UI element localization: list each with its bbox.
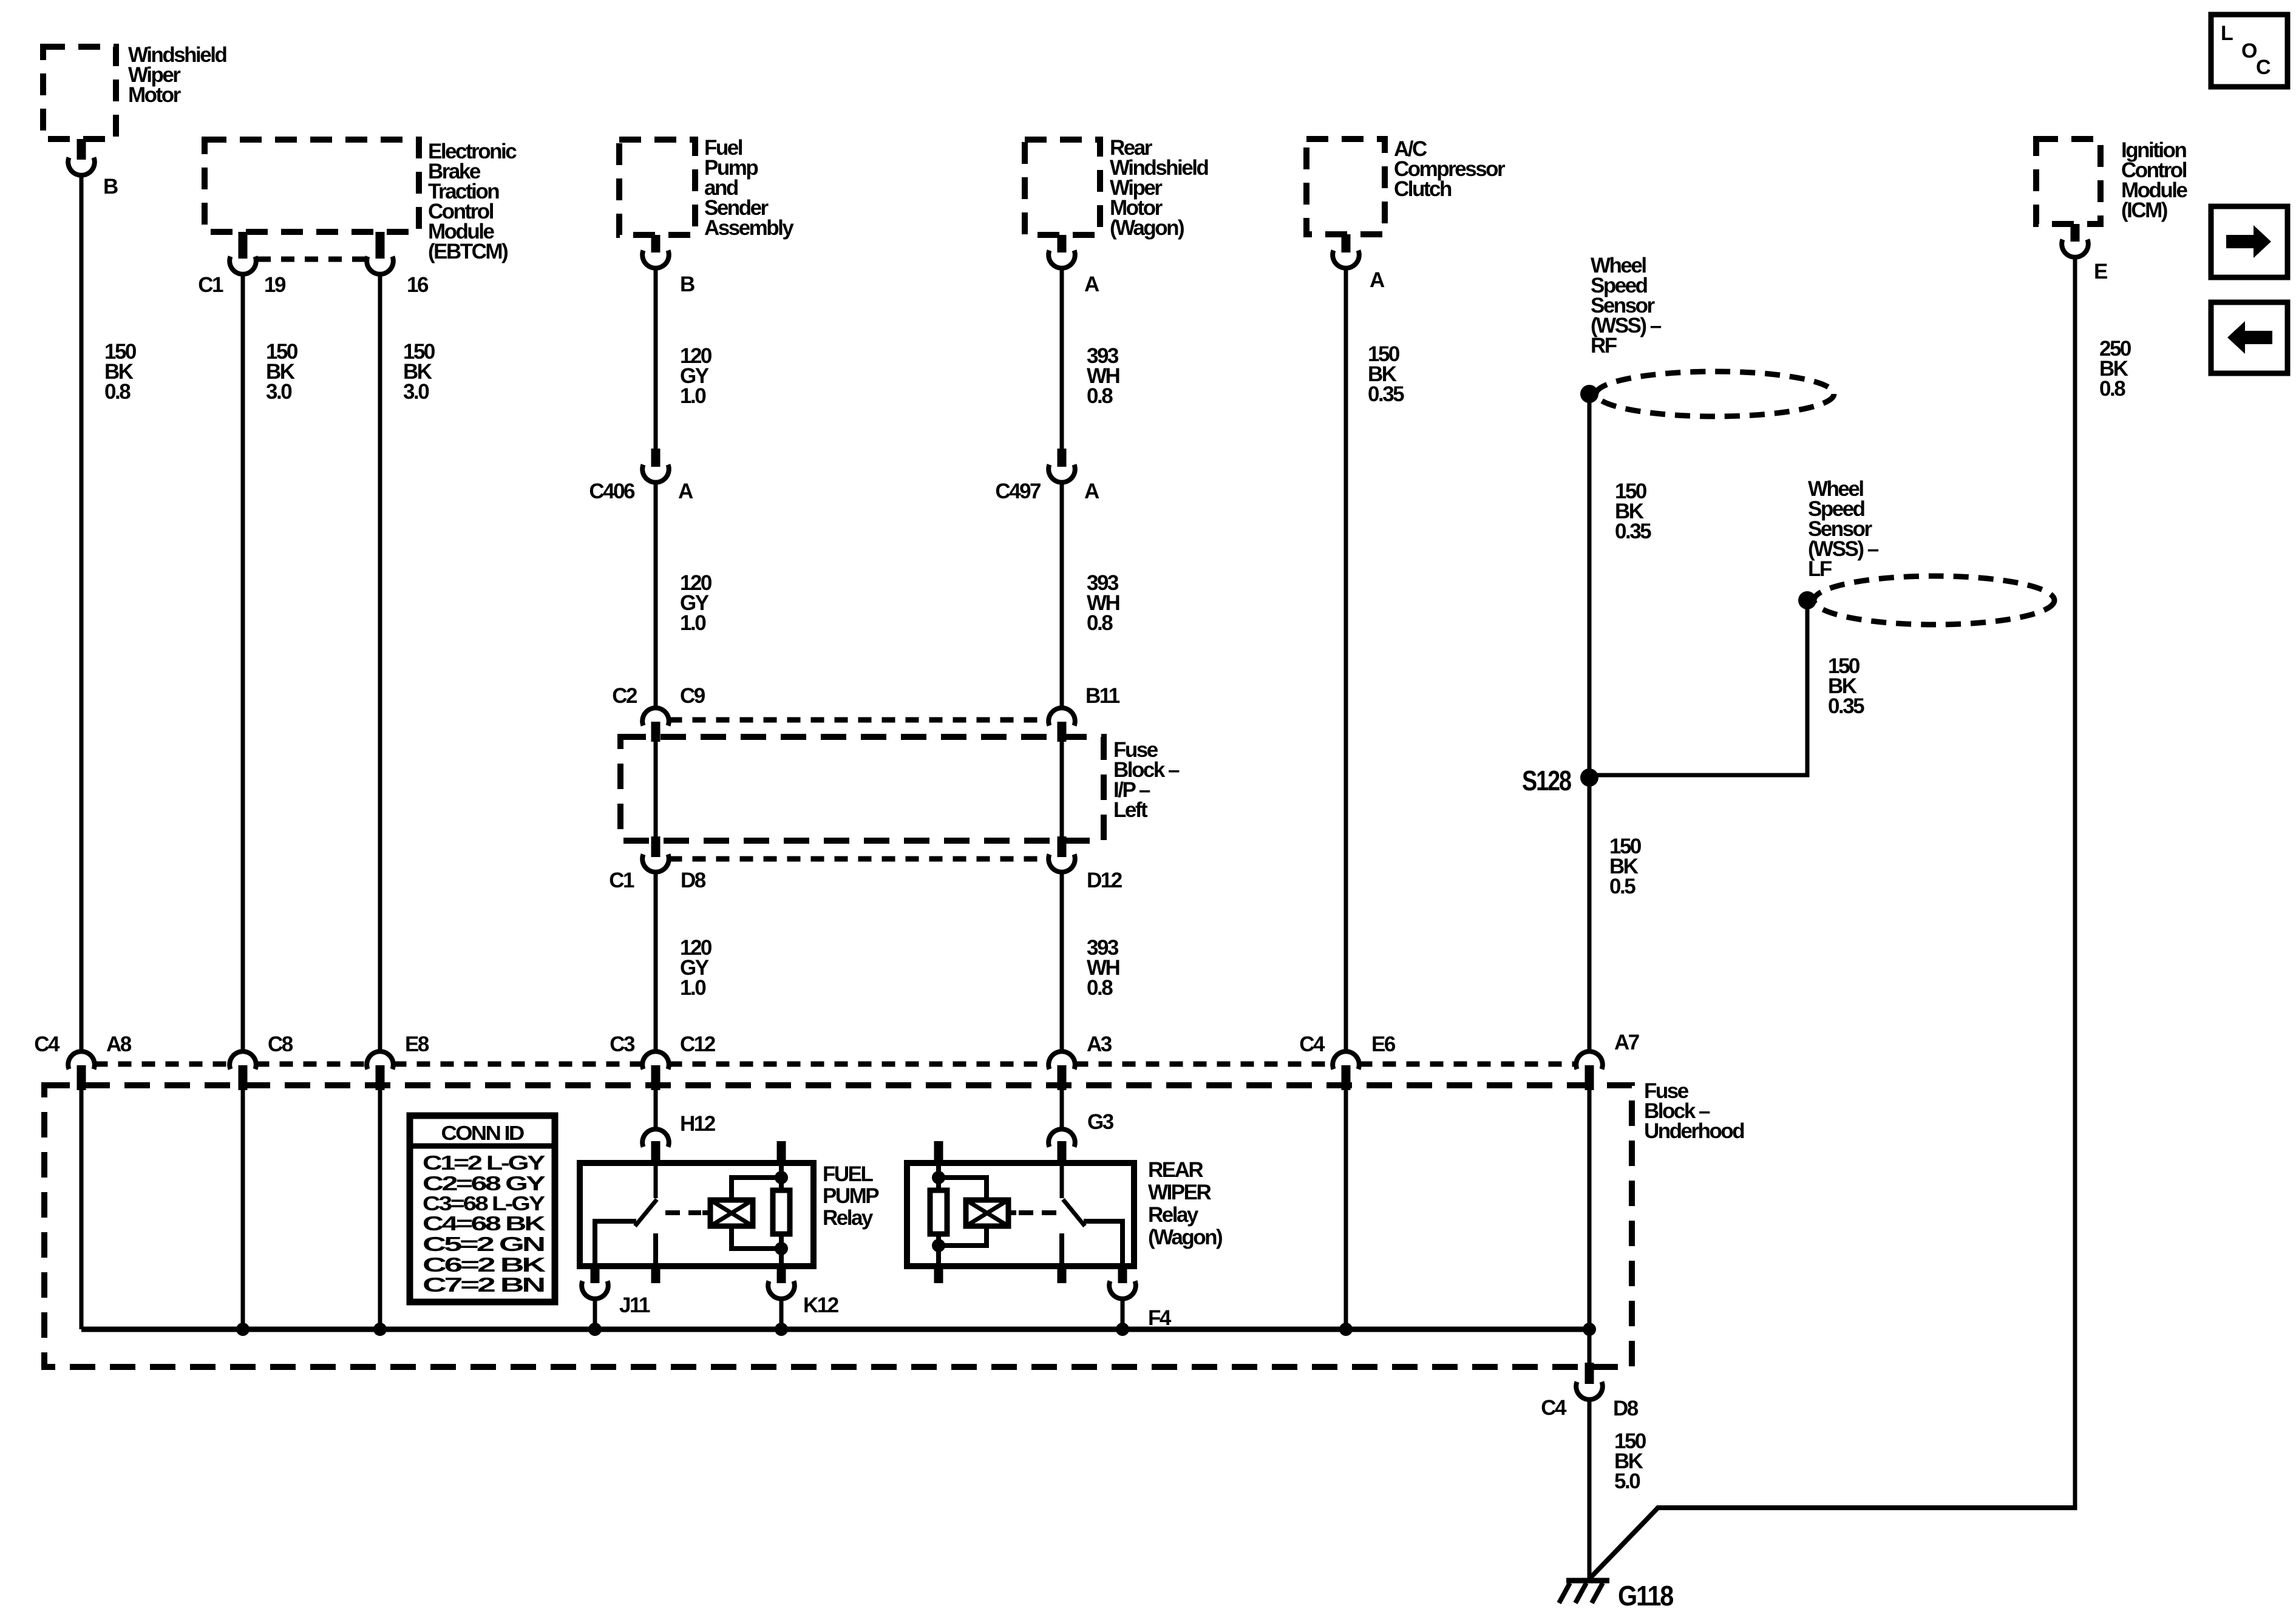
rear wiper relay switch common from G3 <box>1060 1164 1064 1198</box>
svg-text:1.0: 1.0 <box>680 976 706 1000</box>
svg-text:C9: C9 <box>680 684 705 708</box>
wire J11 to ground bus <box>593 1299 597 1329</box>
fuel pump relay switch output wire to J11 <box>595 1221 636 1266</box>
fuel pump relay actuation dashed link <box>665 1210 701 1215</box>
svg-text:FUEL: FUEL <box>823 1162 874 1186</box>
svg-text:E8: E8 <box>405 1032 429 1056</box>
fuse block IP connector dotted face top <box>669 717 1049 723</box>
svg-text:C5=2 GN: C5=2 GN <box>423 1233 544 1255</box>
svg-text:0.35: 0.35 <box>1828 694 1864 718</box>
svg-text:Relay: Relay <box>823 1206 874 1230</box>
svg-text:Left: Left <box>1113 798 1148 822</box>
svg-text:A8: A8 <box>106 1032 132 1056</box>
svg-text:Relay: Relay <box>1148 1203 1199 1227</box>
svg-text:C1: C1 <box>198 273 223 297</box>
connector pin A of AC clutch <box>1342 234 1351 253</box>
svg-text:0.8: 0.8 <box>2099 377 2125 401</box>
underhood entry pin A3 connector <box>1048 1051 1075 1069</box>
underhood entry pin C12 connector <box>642 1051 669 1069</box>
underhood entry pin C8 connector <box>229 1051 256 1069</box>
connector pin A of rear wiper motor <box>1058 235 1067 253</box>
wheel speed sensor RF splice dot <box>1580 385 1598 403</box>
svg-text:G118: G118 <box>1618 1580 1674 1612</box>
wire 150 BK 3.0 from EBTCM pin 16 <box>378 275 382 1051</box>
svg-text:B: B <box>103 175 118 198</box>
in-line connector C406 pin A <box>651 449 661 467</box>
wire 150 BK 0.35 from AC clutch <box>1344 268 1348 1051</box>
junction coil to resistor top left <box>932 1171 945 1184</box>
fuse block IP exit pin D8 connector <box>651 836 661 857</box>
LOC legend box <box>2211 15 2288 87</box>
EBTCM pin 16 connector <box>376 232 385 259</box>
svg-text:C497: C497 <box>995 480 1041 503</box>
relay terminal H12 connector <box>642 1129 669 1147</box>
fuse block IP left dashed box <box>620 737 1104 841</box>
rear windshield wiper motor <box>1025 140 1100 235</box>
svg-text:L: L <box>2221 22 2233 45</box>
relay terminal K12 connector <box>777 1266 786 1283</box>
wire 150 BK 5.0 to ground G118 <box>1588 1400 1592 1581</box>
fuel pump relay box <box>580 1163 813 1266</box>
wire K12 to ground bus <box>779 1299 784 1329</box>
connector pin B of wiper motor <box>77 139 86 160</box>
wire 393 WH 0.8 from IP block to underhood block <box>1060 872 1064 1051</box>
wire 120 GY 1.0 from IP block to underhood block <box>654 872 658 1051</box>
svg-text:A7: A7 <box>1614 1031 1639 1054</box>
underhood exit pin D8 connector <box>1585 1363 1594 1384</box>
junction E6 on ground bus <box>1339 1323 1353 1336</box>
ground symbol G118 <box>1566 1578 1609 1584</box>
rear wiper relay switch arm <box>1063 1199 1085 1226</box>
relay terminal G3 connector <box>1048 1129 1075 1147</box>
fuse block underhood connector dotted face <box>95 1062 230 1067</box>
svg-text:0.8: 0.8 <box>1087 611 1113 635</box>
wire 120 GY 1.0 from C406 to fuse block IP <box>654 483 658 708</box>
svg-text:C2: C2 <box>612 684 637 708</box>
svg-text:E: E <box>2094 260 2107 283</box>
junction coil to resistor bottom <box>775 1242 788 1255</box>
svg-text:C: C <box>2256 56 2271 79</box>
svg-text:(Wagon): (Wagon) <box>1148 1225 1222 1249</box>
svg-text:C6=2 BK: C6=2 BK <box>423 1253 546 1276</box>
relay terminal F4 connector <box>1118 1266 1127 1283</box>
wire through fuse block IP fuel pump circuit <box>654 742 658 836</box>
svg-text:16: 16 <box>407 273 429 297</box>
svg-text:Assembly: Assembly <box>704 216 794 240</box>
wire inside fuse block from E8 to bus <box>378 1090 382 1329</box>
wire 250 BK 0.8 from ICM to ground <box>2073 257 2077 1510</box>
junction coil to resistor bottom left <box>932 1239 945 1252</box>
svg-text:C8: C8 <box>268 1032 293 1056</box>
connector pin B of fuel pump <box>651 235 661 253</box>
junction E8 on ground bus <box>373 1323 387 1336</box>
fuel pump and sender assembly <box>619 140 695 235</box>
CONN ID table <box>410 1116 555 1302</box>
EBTCM pin 19 connector <box>239 232 248 259</box>
svg-text:1.0: 1.0 <box>680 384 706 408</box>
wire 150 BK 3.0 from EBTCM pin 19 <box>241 275 245 1051</box>
rear wiper relay coil top wire <box>939 1178 987 1200</box>
AC compressor clutch <box>1306 139 1385 234</box>
arrow legend box right <box>2211 206 2288 277</box>
fuel pump relay switch common from H12 <box>654 1163 658 1198</box>
svg-text:19: 19 <box>264 273 286 297</box>
svg-text:C3: C3 <box>610 1032 635 1056</box>
rear wiper relay resistor <box>930 1190 947 1234</box>
rear wiper relay terminal stub top left <box>934 1141 943 1163</box>
fuel pump relay switch arm <box>635 1199 657 1226</box>
wire 150 BK 0.35 from WSS LF to S128 <box>1595 608 1807 775</box>
rear wiper relay lower contact stub <box>1059 1233 1064 1263</box>
connector pin E of ICM <box>2071 224 2080 242</box>
svg-text:S128: S128 <box>1522 765 1572 796</box>
svg-text:LF: LF <box>1808 557 1832 581</box>
underhood entry pin E6 connector <box>1333 1051 1359 1069</box>
svg-text:H12: H12 <box>680 1112 716 1136</box>
svg-text:C1: C1 <box>609 869 634 892</box>
svg-text:0.35: 0.35 <box>1368 382 1404 406</box>
fuel pump relay terminal stub top right <box>777 1141 786 1163</box>
junction coil to resistor top <box>775 1171 788 1184</box>
rear wiper relay bottom left stub <box>934 1266 943 1283</box>
svg-text:C2=68 GY: C2=68 GY <box>423 1172 546 1195</box>
svg-text:RF: RF <box>1591 334 1617 358</box>
svg-text:A: A <box>1370 268 1385 292</box>
svg-text:3.0: 3.0 <box>266 380 292 404</box>
wire inside fuse block from C8 to bus <box>241 1090 245 1329</box>
wire 150 BK 0.8 from wiper motor to fuse block <box>80 175 84 1051</box>
svg-text:Underhood: Underhood <box>1644 1119 1744 1143</box>
fuel pump relay coil bottom wire <box>732 1226 781 1249</box>
svg-text:A3: A3 <box>1087 1032 1112 1056</box>
fuse block IP exit pin D12 connector <box>1058 836 1067 857</box>
rear wiper relay switch output wire to F4 <box>1084 1221 1123 1266</box>
svg-text:C4=68 BK: C4=68 BK <box>423 1212 546 1235</box>
wire ICM ground run to G118 <box>1591 1508 2075 1578</box>
ignition control module ICM <box>2036 139 2101 224</box>
svg-text:A: A <box>1084 480 1099 503</box>
svg-text:C3=68 L-GY: C3=68 L-GY <box>423 1192 545 1215</box>
relay terminal J11 connector <box>591 1266 600 1283</box>
junction C8 on ground bus <box>236 1323 250 1336</box>
left arrow icon <box>2245 331 2272 344</box>
rear wiper relay actuation dashed link <box>1008 1210 1016 1215</box>
wheel speed sensor LF dashed ellipse <box>1814 576 2054 625</box>
svg-text:B: B <box>680 273 695 296</box>
wire 120 GY 1.0 fuel pump to C406 <box>654 268 658 449</box>
wire F4 to ground bus <box>1121 1299 1125 1329</box>
rear wiper relay box <box>907 1163 1134 1266</box>
wire 150 BK 0.35 from WSS RF to S128 <box>1588 402 1592 778</box>
rear wiper relay coil bottom wire <box>939 1226 987 1246</box>
fuel pump relay coil top wire <box>732 1178 781 1200</box>
wire from C12 to fuel pump relay H12 <box>654 1090 658 1129</box>
junction F4 on ground bus <box>1116 1323 1129 1336</box>
wire 150 BK 0.5 from S128 to fuse block underhood <box>1588 783 1592 1051</box>
wire inside fuse block from A8 to bus <box>80 1090 84 1329</box>
svg-text:(EBTCM): (EBTCM) <box>428 240 508 263</box>
underhood entry pin A7 connector <box>1576 1051 1603 1069</box>
wire 393 WH 0.8 to C497 <box>1060 268 1064 449</box>
svg-text:J11: J11 <box>619 1293 650 1317</box>
EBTCM connector C1 dotted face <box>257 257 365 262</box>
wire from bus to underhood exit D8 <box>1588 1329 1592 1364</box>
svg-text:A: A <box>678 480 693 503</box>
wire 393 WH 0.8 from C497 to fuse block IP <box>1060 483 1064 708</box>
svg-text:0.35: 0.35 <box>1615 520 1651 543</box>
svg-text:D12: D12 <box>1087 869 1123 892</box>
svg-text:0.8: 0.8 <box>1087 976 1113 1000</box>
fuse block IP entry pin C9 connector <box>642 708 669 725</box>
svg-text:G3: G3 <box>1087 1110 1114 1134</box>
wire through fuse block IP rear wiper circuit <box>1060 742 1064 836</box>
svg-text:C7=2 BN: C7=2 BN <box>423 1273 544 1296</box>
fuel pump relay coil <box>710 1200 753 1226</box>
svg-text:O: O <box>2241 39 2257 63</box>
windshield wiper motor <box>43 47 116 139</box>
wire inside fuse block from A7 to bus <box>1588 1090 1592 1329</box>
svg-text:B11: B11 <box>1085 684 1120 708</box>
svg-text:Motor: Motor <box>128 83 182 107</box>
wheel speed sensor LF splice dot <box>1798 591 1816 609</box>
svg-text:D8: D8 <box>1613 1397 1639 1420</box>
in-line connector C497 pin A <box>1058 449 1067 467</box>
fuel pump relay resistor <box>773 1190 790 1234</box>
wire inside fuse block from E6 to bus <box>1344 1090 1348 1329</box>
ground bus wire in fuse block underhood <box>81 1327 1589 1332</box>
svg-text:D8: D8 <box>681 869 706 892</box>
right arrow icon <box>2226 235 2254 248</box>
svg-text:E6: E6 <box>1371 1032 1396 1056</box>
svg-text:5.0: 5.0 <box>1614 1470 1640 1493</box>
junction A7 branch on ground bus <box>1583 1323 1596 1336</box>
svg-text:(ICM): (ICM) <box>2121 198 2167 222</box>
svg-text:F4: F4 <box>1148 1306 1172 1330</box>
svg-text:1.0: 1.0 <box>680 611 706 635</box>
fuse block IP entry pin B11 connector <box>1048 708 1075 725</box>
wire from A3 to rear wiper relay G3 <box>1060 1090 1064 1129</box>
svg-text:(Wagon): (Wagon) <box>1110 216 1184 240</box>
svg-text:0.5: 0.5 <box>1609 875 1635 898</box>
svg-text:C4: C4 <box>1299 1032 1325 1056</box>
svg-text:0.8: 0.8 <box>104 380 131 404</box>
junction J11 on ground bus <box>588 1323 602 1336</box>
svg-text:0.8: 0.8 <box>1087 384 1113 408</box>
svg-text:WIPER: WIPER <box>1148 1181 1211 1204</box>
underhood entry pin A8 connector <box>68 1051 95 1069</box>
rear wiper relay coil <box>966 1200 1008 1226</box>
svg-text:PUMP: PUMP <box>823 1184 879 1208</box>
svg-text:CONN ID: CONN ID <box>441 1122 525 1144</box>
junction K12 on ground bus <box>775 1323 788 1336</box>
svg-text:C4: C4 <box>34 1032 60 1056</box>
EBTCM module <box>205 140 419 232</box>
svg-text:K12: K12 <box>803 1293 839 1317</box>
splice S128 <box>1580 768 1598 787</box>
svg-text:C12: C12 <box>680 1032 716 1056</box>
fuse block underhood dashed box <box>44 1085 1632 1367</box>
svg-text:Clutch: Clutch <box>1394 177 1452 201</box>
arrow legend box left <box>2211 302 2288 373</box>
wheel speed sensor RF dashed ellipse <box>1596 371 1834 416</box>
underhood entry pin E8 connector <box>367 1051 393 1069</box>
svg-text:C406: C406 <box>589 480 635 503</box>
svg-text:A: A <box>1084 273 1099 296</box>
svg-text:C1=2 L-GY: C1=2 L-GY <box>423 1151 545 1174</box>
svg-text:3.0: 3.0 <box>403 380 429 404</box>
fuse block IP connector dotted face bottom <box>669 856 1049 862</box>
svg-text:REAR: REAR <box>1148 1158 1203 1182</box>
svg-text:C4: C4 <box>1541 1396 1567 1420</box>
fuel pump relay lower contact stub <box>653 1233 658 1263</box>
